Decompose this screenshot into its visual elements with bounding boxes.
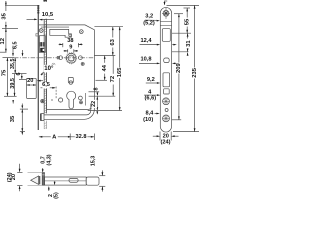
dim 10 degrees leader xyxy=(41,72,44,74)
case bar xyxy=(45,177,87,185)
dim A / 32.8 xyxy=(39,134,95,141)
ext 31 bottom xyxy=(172,51,189,53)
bracket bar below case xyxy=(40,103,94,121)
stepped component top (flag) xyxy=(50,29,72,37)
faceplate hatch marks xyxy=(44,18,46,128)
svg-text:32.8: 32.8 xyxy=(76,134,87,140)
dim 35 line xyxy=(5,1,7,29)
dim 20 (24) left of bottom view xyxy=(17,164,22,191)
svg-text:35: 35 xyxy=(10,115,16,122)
deadbolt cutout xyxy=(163,73,170,87)
svg-text:75: 75 xyxy=(1,69,7,76)
dim 10.5 xyxy=(27,19,55,21)
hatched rivet below right screw xyxy=(79,101,83,105)
dim 31 xyxy=(187,33,189,56)
svg-text:63: 63 xyxy=(110,38,116,45)
dim 44 xyxy=(104,56,106,81)
hatched rivet left-low xyxy=(52,63,55,66)
dim 12 line xyxy=(0,29,7,53)
ext 209 bottom xyxy=(172,119,182,121)
dim 22 xyxy=(96,96,98,114)
screw hole left of follower xyxy=(59,56,63,60)
fixing screw asterisk on faceplate xyxy=(41,99,45,103)
dim 6.5 left arrows xyxy=(12,46,23,57)
dim 38 xyxy=(59,43,83,47)
svg-text:(4,3): (4,3) xyxy=(47,154,53,165)
svg-text:6,5: 6,5 xyxy=(13,41,19,49)
dim 0.7 (4.3) leader xyxy=(42,168,44,173)
svg-text:165: 165 xyxy=(117,67,123,78)
svg-text:55: 55 xyxy=(185,18,191,25)
screw hole left of cylinder xyxy=(58,98,63,103)
hatched rivet right-low xyxy=(81,62,84,65)
dim 20 arrow xyxy=(37,80,43,82)
ext 8 tick xyxy=(89,91,100,93)
top fixing screw on faceplate xyxy=(39,29,43,33)
case position lines xyxy=(160,21,171,23)
ext 31 top xyxy=(172,32,191,34)
euro profile cylinder xyxy=(67,91,76,109)
top screw hole xyxy=(163,10,169,16)
svg-text:(5,2): (5,2) xyxy=(143,21,155,27)
svg-text:(10): (10) xyxy=(143,117,153,123)
leader 8.4 (10) xyxy=(155,113,160,115)
leader arrow 10.8 right xyxy=(172,63,177,65)
deadbolt thrown box xyxy=(27,78,37,98)
svg-text:31: 31 xyxy=(186,40,192,47)
svg-text:3,2: 3,2 xyxy=(145,14,153,20)
svg-text:6: 6 xyxy=(16,72,22,75)
svg-text:38: 38 xyxy=(67,38,73,44)
dim 165 xyxy=(119,27,121,111)
screw hole 3 xyxy=(163,115,170,122)
svg-text:(5): (5) xyxy=(54,192,60,199)
ext 235 bottom xyxy=(173,131,199,133)
svg-text:39,5: 39,5 xyxy=(10,78,16,89)
ext 55 top tick xyxy=(184,7,191,9)
svg-text:20: 20 xyxy=(27,78,33,84)
top ext line xyxy=(167,4,200,6)
svg-text:12: 12 xyxy=(0,37,6,44)
dim 2 (5) arrows xyxy=(48,181,56,191)
svg-text:20: 20 xyxy=(163,133,169,139)
dim 35 bottom xyxy=(20,104,28,136)
faceplate strip top view xyxy=(42,173,44,186)
small dot xyxy=(51,99,52,100)
dim 35 top: ext lines xyxy=(5,4,39,6)
dim 63 xyxy=(112,27,114,56)
follower knurled xyxy=(65,52,77,64)
top outside arrow xyxy=(164,1,168,6)
ext top xyxy=(94,26,123,28)
leader 12.4 xyxy=(140,44,161,46)
latch bolt xyxy=(36,34,46,53)
dim 15.3 xyxy=(99,170,105,191)
leader arrow 12.4 right xyxy=(172,44,177,46)
follower axis dash line xyxy=(14,57,94,59)
faceplate front edge line xyxy=(37,7,39,131)
ext follower xyxy=(94,55,115,57)
dim 8 arrow xyxy=(97,92,99,96)
leader 10.8 xyxy=(139,63,160,65)
ext case bottom xyxy=(88,110,122,112)
svg-text:(24): (24) xyxy=(160,140,170,146)
svg-text:20: 20 xyxy=(11,174,17,180)
lock case outline xyxy=(47,25,95,110)
dim 209 xyxy=(178,14,180,120)
cylinder screw slot xyxy=(164,89,170,94)
dim 20 (24) bottom of right view xyxy=(153,132,179,141)
small hole xyxy=(165,109,168,112)
svg-text:8,4: 8,4 xyxy=(145,110,154,116)
svg-text:12,4: 12,4 xyxy=(141,38,153,44)
screw hole right of cylinder xyxy=(79,96,83,100)
screw hole 2 xyxy=(163,98,170,105)
svg-text:10,8: 10,8 xyxy=(141,57,152,63)
dim 235 xyxy=(194,5,196,131)
svg-text:44: 44 xyxy=(102,64,108,71)
adjustment part above cylinder xyxy=(68,77,73,84)
white backing rects for texts crossing lines xyxy=(42,65,97,141)
ext cylinder xyxy=(89,95,116,97)
svg-text:72: 72 xyxy=(110,75,116,82)
ext 209 top xyxy=(174,13,183,15)
faceplate strip hatched xyxy=(43,0,46,129)
leader 9.2 xyxy=(146,82,161,84)
svg-text:35,5: 35,5 xyxy=(10,59,16,70)
svg-text:(6,6): (6,6) xyxy=(144,96,156,102)
screw hole right of follower xyxy=(79,56,83,60)
plate outline xyxy=(160,7,171,132)
dim 72 xyxy=(112,56,114,97)
svg-text:209: 209 xyxy=(176,62,182,73)
svg-text:10,5: 10,5 xyxy=(42,12,54,18)
latch wedge xyxy=(31,176,39,184)
case top second line xyxy=(39,24,47,26)
svg-text:235: 235 xyxy=(192,67,198,78)
dim 55 xyxy=(186,8,188,33)
ext 44 bottom xyxy=(96,79,108,81)
dim 75 xyxy=(7,58,9,97)
dim 39.5 xyxy=(12,74,15,104)
svg-text:35: 35 xyxy=(2,12,8,19)
svg-text:9,2: 9,2 xyxy=(147,77,155,83)
svg-text:9: 9 xyxy=(69,45,72,51)
ext at cylinder level xyxy=(4,95,17,97)
svg-text:6,5: 6,5 xyxy=(42,82,50,88)
leader 3.2 (5.2) xyxy=(145,20,160,22)
small cutout xyxy=(164,58,170,63)
svg-text:15,3: 15,3 xyxy=(91,156,97,167)
svg-text:22: 22 xyxy=(91,101,97,107)
svg-text:10°: 10° xyxy=(44,66,54,72)
left ext at follower level xyxy=(3,57,15,59)
latch cutout xyxy=(162,29,170,42)
dim 9 xyxy=(64,49,79,52)
small square on axis xyxy=(57,56,59,59)
inner vertical line near case right xyxy=(84,93,86,106)
dim 6.5 cylinder leader xyxy=(41,87,57,100)
svg-text:8: 8 xyxy=(94,87,100,90)
screw post top-right with hatch xyxy=(79,30,83,34)
leader 4 (6.6) xyxy=(144,94,160,96)
dim 35.5 xyxy=(12,58,27,74)
dim 6 xyxy=(19,74,26,80)
